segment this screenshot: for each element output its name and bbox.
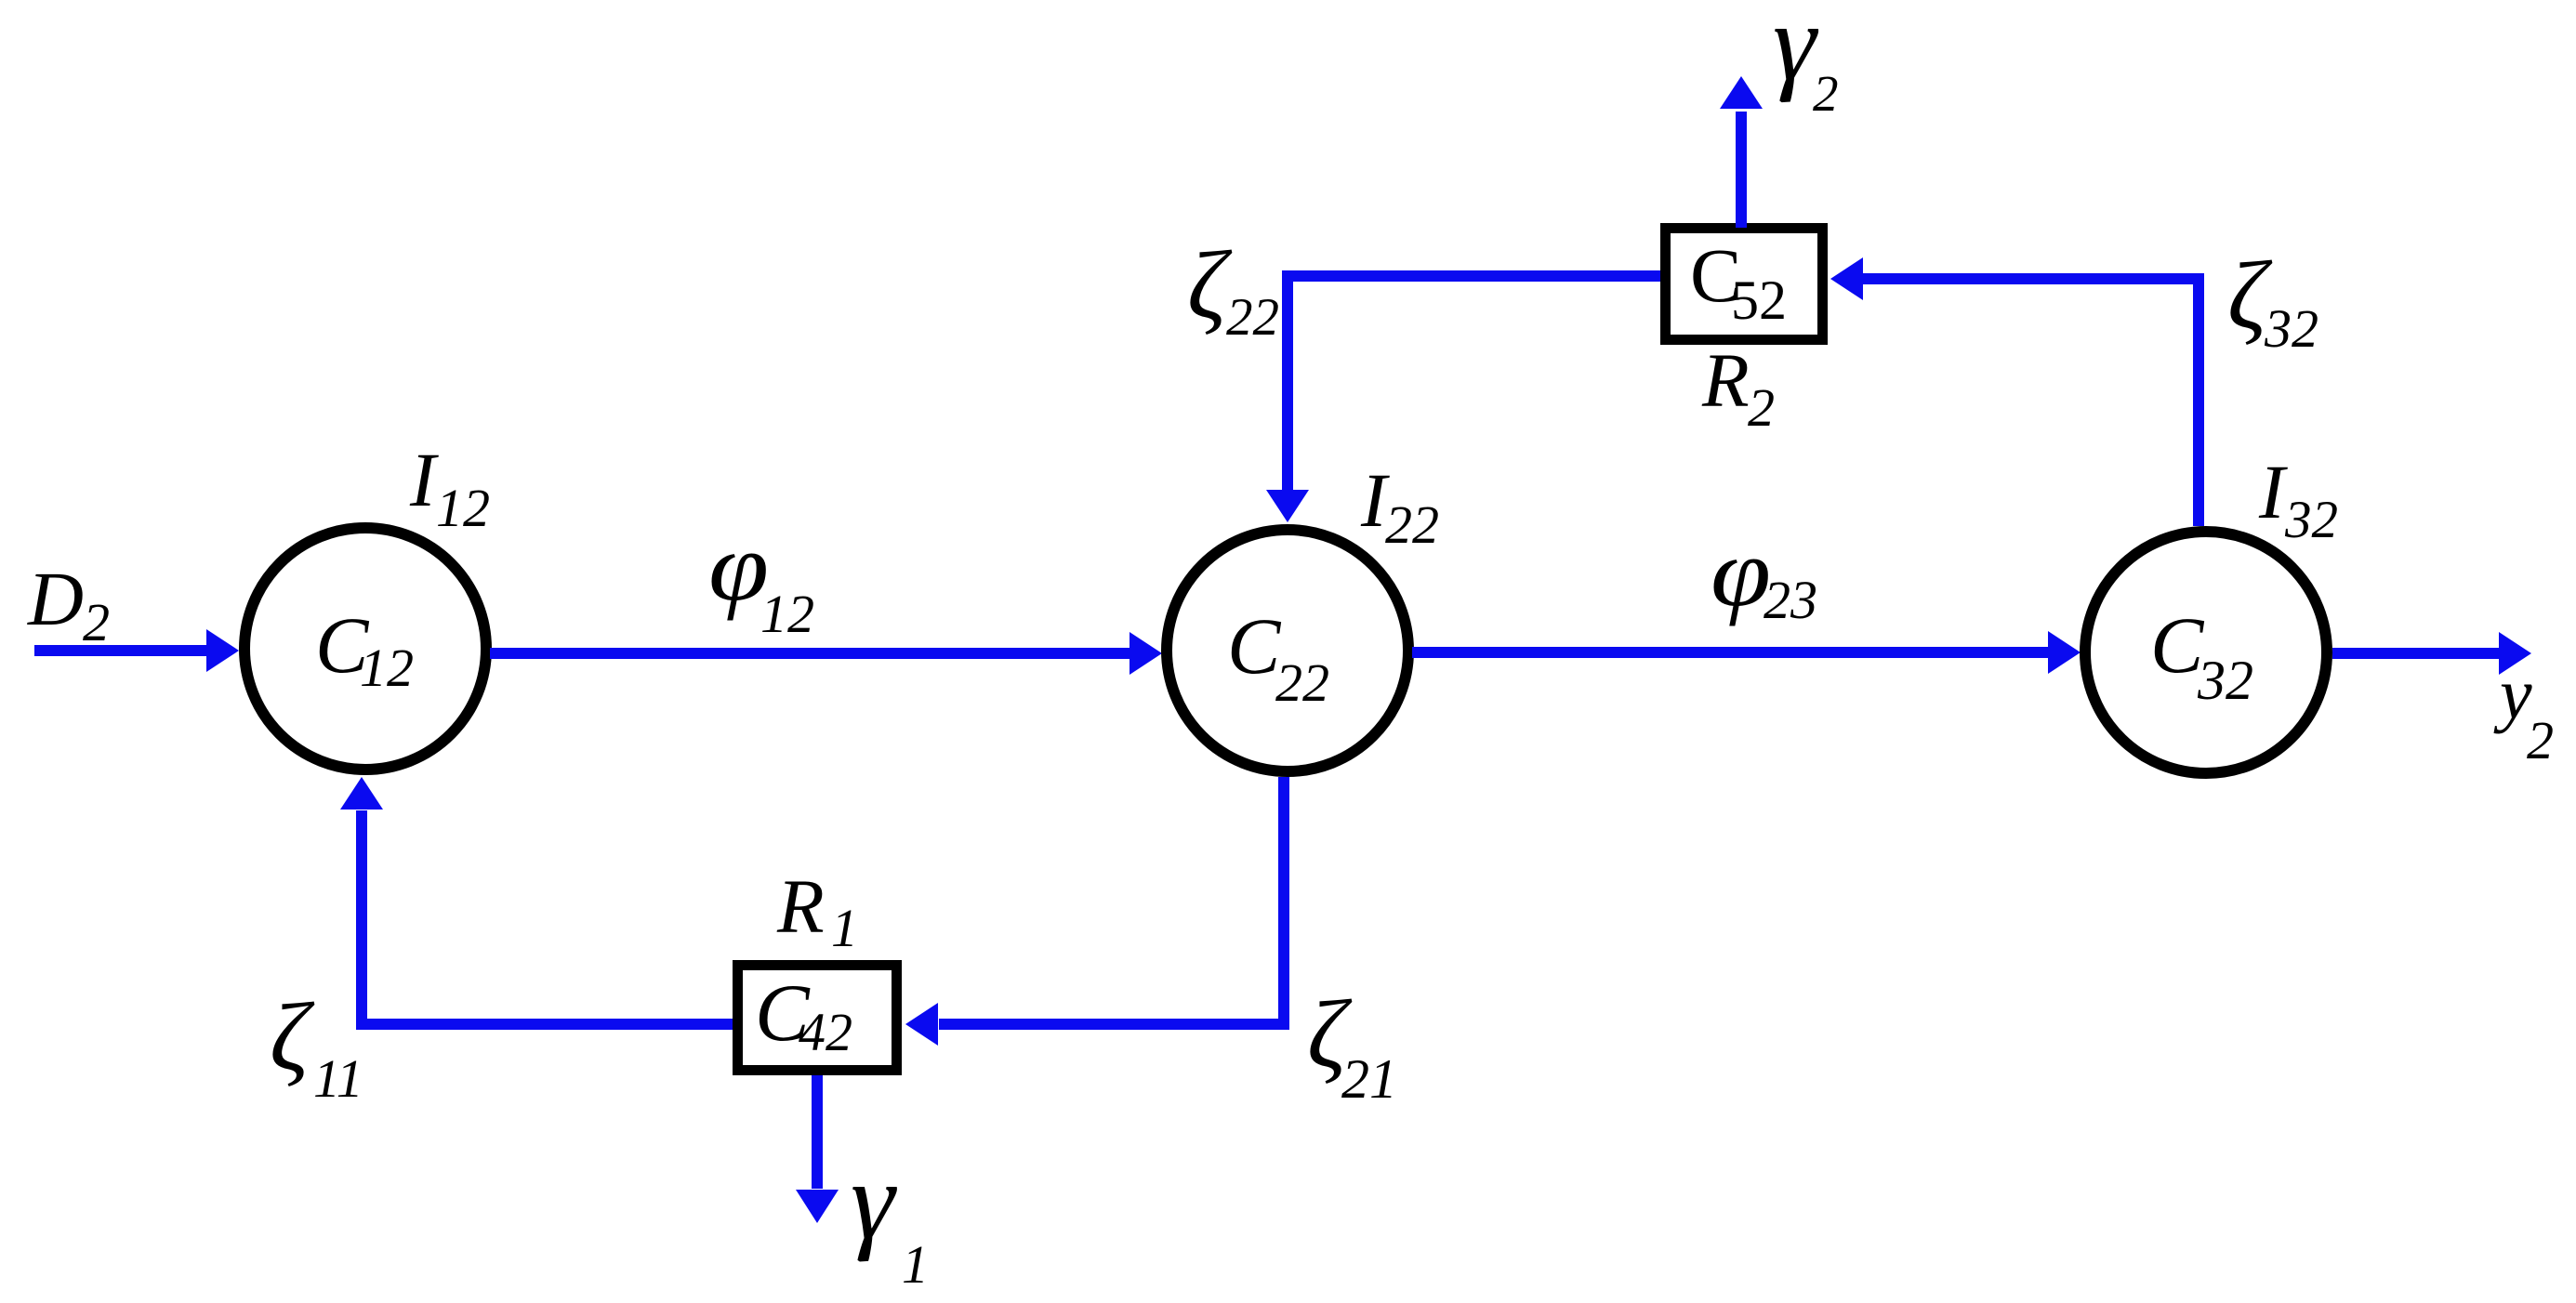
wire zeta21 from C22 bottom to C42 right arrow — [905, 777, 1284, 1046]
svg-text:23: 23 — [1764, 570, 1817, 630]
svg-text:2: 2 — [1748, 377, 1775, 438]
wire from C42 left to zeta11 corner up into C12 bottom — [340, 777, 733, 1024]
svg-text:D: D — [27, 556, 84, 641]
label D2 — [27, 556, 110, 652]
svg-text:1: 1 — [831, 898, 858, 958]
label gamma1 — [851, 1138, 929, 1295]
label C22 inside C22 circle — [1227, 601, 1329, 713]
svg-text:32: 32 — [2284, 491, 2338, 549]
svg-text:22: 22 — [1226, 288, 1279, 347]
label I12 — [409, 437, 490, 538]
svg-text:R: R — [776, 863, 825, 949]
svg-text:ζ: ζ — [270, 982, 315, 1091]
label R2 below C52 box — [1701, 337, 1775, 438]
box C42 (R1) — [738, 966, 897, 1071]
svg-text:32: 32 — [2264, 298, 2318, 359]
wire phi12 arrow C12 to C22 — [490, 632, 1162, 675]
label C42 inside box — [755, 968, 852, 1062]
svg-text:I: I — [409, 437, 439, 522]
svg-text:52: 52 — [1731, 270, 1787, 331]
label phi12 — [708, 514, 814, 644]
wire gamma2 arrow up from C52 — [1720, 76, 1763, 228]
wire zeta22 feedback from C52 down into C22 top — [1266, 276, 1660, 522]
label zeta21 — [1307, 980, 1397, 1110]
svg-text:22: 22 — [1385, 494, 1439, 555]
svg-text:12: 12 — [360, 638, 414, 698]
label zeta11 — [270, 982, 363, 1109]
wire D2 input arrow into C12 — [34, 629, 239, 672]
label C52 inside box (upright) — [1690, 232, 1787, 331]
label I22 — [1360, 457, 1439, 555]
label I32 — [2258, 449, 2338, 549]
label C32 inside C32 circle — [2150, 600, 2253, 711]
svg-text:1: 1 — [902, 1234, 929, 1295]
node C32 (circle) — [2085, 532, 2327, 773]
svg-text:2: 2 — [83, 592, 110, 652]
svg-text:2: 2 — [2527, 710, 2554, 770]
svg-text:42: 42 — [799, 1002, 852, 1062]
svg-text:11: 11 — [313, 1048, 363, 1109]
label y2 — [2493, 653, 2554, 770]
label zeta32 — [2227, 241, 2318, 359]
svg-text:2: 2 — [1813, 65, 1839, 122]
wire y2 output arrow from C32 — [2332, 632, 2531, 675]
svg-text:12: 12 — [436, 478, 490, 538]
node C22 (circle) — [1167, 530, 1408, 771]
node C12 (circle) — [244, 528, 486, 770]
svg-text:32: 32 — [2197, 650, 2253, 711]
label gamma2 — [1773, 0, 1839, 122]
wire zeta32 from C32 top to C52 right arrow — [1830, 257, 2199, 526]
svg-text:I: I — [2258, 449, 2288, 534]
wire phi23 arrow C22 to C32 — [1412, 631, 2081, 674]
svg-text:R: R — [1701, 337, 1750, 423]
svg-text:γ: γ — [851, 1138, 897, 1262]
label zeta22 — [1187, 230, 1279, 347]
box C52 (R2) — [1666, 229, 1823, 340]
wire gamma1 arrow down from C42 — [796, 1075, 839, 1223]
svg-text:φ: φ — [1711, 520, 1771, 627]
label R1 above C42 box — [776, 863, 858, 958]
label C12 inside C12 circle — [315, 600, 414, 698]
svg-text:21: 21 — [1341, 1048, 1397, 1110]
svg-text:C: C — [1227, 601, 1282, 691]
label phi23 — [1711, 520, 1817, 630]
svg-text:22: 22 — [1275, 652, 1329, 713]
svg-text:12: 12 — [760, 584, 814, 644]
